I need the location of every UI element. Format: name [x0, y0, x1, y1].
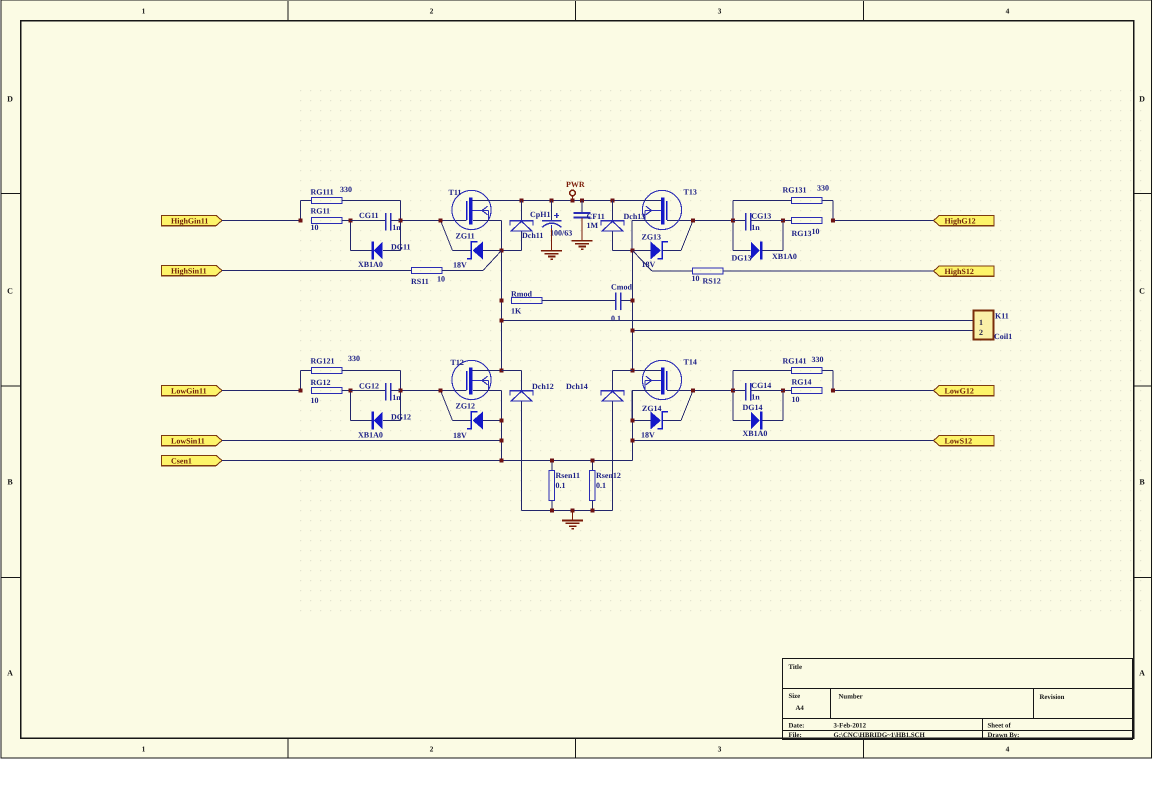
node ZG13 input node [831, 219, 835, 223]
svg-text:ZG11: ZG11 [456, 232, 475, 241]
connector K11 [974, 311, 994, 340]
resistor RS12 [652, 268, 723, 274]
svg-text:Rmod: Rmod [511, 290, 532, 299]
ground [572, 241, 593, 249]
svg-text:Rsen11: Rsen11 [556, 471, 580, 480]
node gate node [439, 219, 443, 223]
svg-text:A4: A4 [796, 705, 805, 712]
zener ZG14 [632, 412, 681, 430]
svg-text:ZG14: ZG14 [642, 404, 662, 413]
wire source of T12 [473, 390, 502, 392]
svg-text:K11: K11 [995, 312, 1009, 321]
svg-text:LowSin11: LowSin11 [171, 436, 205, 445]
svg-text:Number: Number [839, 694, 863, 701]
ground [562, 521, 583, 529]
resistor RS11 [412, 268, 484, 274]
node ZG12 input node [299, 389, 303, 393]
node Dch11 top [520, 199, 524, 203]
svg-text:4: 4 [1006, 745, 1010, 754]
capacitor CF11 [573, 201, 590, 218]
svg-text:RG141: RG141 [783, 357, 807, 366]
svg-text:330: 330 [817, 184, 829, 193]
diode Dch13 [601, 201, 633, 251]
port LowG12 [934, 385, 995, 395]
diode DG11 [351, 221, 401, 260]
svg-text:LowG12: LowG12 [945, 386, 974, 395]
zener ZG12 [453, 412, 502, 430]
svg-text:ZG13: ZG13 [642, 233, 662, 242]
node (782.5,220) [781, 219, 785, 223]
svg-text:XB1A0: XB1A0 [358, 431, 383, 440]
svg-text:T11: T11 [449, 188, 462, 197]
svg-text:File:: File: [789, 732, 802, 739]
svg-text:Coil1: Coil1 [994, 332, 1012, 341]
svg-text:2: 2 [979, 328, 983, 337]
wire CF11 to ground [581, 218, 583, 241]
svg-text:HighGin11: HighGin11 [171, 216, 208, 225]
node (350,390) [349, 389, 353, 393]
diode DG12 [351, 391, 401, 430]
wire switch node B to K11 pin 2 [633, 330, 974, 332]
wire LowG12 to gate network [833, 390, 934, 392]
svg-text:1M: 1M [587, 221, 599, 230]
svg-text:RG111: RG111 [311, 188, 334, 197]
svg-text:T13: T13 [684, 188, 697, 197]
node PWR stub [571, 199, 575, 203]
svg-text:HighSin11: HighSin11 [171, 266, 207, 275]
node K11 wire B tap [631, 329, 635, 333]
svg-text:Revision: Revision [1040, 694, 1065, 701]
wire HighSin11 to RS11 [222, 270, 412, 272]
capacitor CG11 [351, 213, 401, 231]
svg-text:G:\CNC\HBRIDG~1\HB1.SCH: G:\CNC\HBRIDG~1\HB1.SCH [834, 732, 926, 739]
diode Dch12 [502, 371, 534, 511]
svg-text:0.1: 0.1 [611, 314, 621, 323]
svg-text:RG14: RG14 [792, 378, 812, 387]
wire LowSin11 to T12 source node [222, 440, 502, 442]
wire bottom ground rail [522, 510, 613, 512]
wire switch node A to K11 pin 1 [502, 320, 974, 322]
capacitor CG13 [733, 213, 783, 231]
svg-text:C: C [1139, 287, 1145, 296]
port LowSin11 [162, 435, 223, 445]
svg-text:A: A [7, 669, 13, 678]
wire LowGin11 to gate network [222, 390, 301, 392]
svg-text:CpH1: CpH1 [530, 210, 550, 219]
svg-text:DG12: DG12 [391, 413, 411, 422]
svg-text:10: 10 [812, 227, 820, 236]
svg-text:B: B [7, 478, 13, 487]
svg-text:Rsen12: Rsen12 [596, 471, 621, 480]
node Rsen12 top [590, 459, 594, 463]
resistor Rsen12 [590, 461, 596, 511]
resistor RG13 [783, 218, 822, 224]
wire ground stub [572, 511, 574, 521]
svg-text:1: 1 [142, 7, 146, 16]
svg-text:10: 10 [311, 396, 319, 405]
node Dch13 top [611, 199, 615, 203]
svg-text:1n: 1n [392, 223, 401, 232]
svg-text:1n: 1n [751, 393, 760, 402]
wire source of T14 [632, 390, 661, 392]
capacitor CG12 [351, 383, 401, 401]
svg-text:2: 2 [430, 7, 434, 16]
svg-text:100/63: 100/63 [550, 229, 572, 238]
svg-text:DG14: DG14 [743, 403, 763, 412]
svg-text:B: B [1139, 478, 1145, 487]
svg-text:Sheet of: Sheet of [988, 723, 1012, 730]
node (782.5,390) [781, 389, 785, 393]
svg-text:RG131: RG131 [783, 186, 807, 195]
node Rmod tap [500, 299, 504, 303]
diode Dch14 [601, 371, 633, 511]
node CpH1 top [550, 199, 554, 203]
wire Csen1 sense line [222, 460, 633, 462]
svg-text:RG12: RG12 [311, 378, 331, 387]
wire diagonal gate to zener ZG12 [441, 391, 453, 421]
svg-text:D: D [7, 95, 13, 104]
wire source of T11 [473, 220, 502, 222]
node (350,220) [349, 219, 353, 223]
wire HighGin11 to gate network [222, 220, 301, 222]
node ZG14 row [631, 419, 635, 423]
svg-text:4: 4 [1006, 7, 1010, 16]
svg-text:RG121: RG121 [311, 357, 335, 366]
svg-text:Dch13: Dch13 [624, 212, 646, 221]
zener ZG13 [632, 242, 681, 260]
transistor T14 [642, 360, 681, 399]
svg-text:Date:: Date: [789, 723, 805, 730]
diode DG14 [733, 391, 783, 430]
diode DG13 [733, 221, 783, 260]
capacitor CG14 [733, 383, 783, 401]
title block [783, 659, 1133, 740]
wire T14 drain to switch node B [633, 370, 662, 372]
node (732.5,220) [731, 219, 735, 223]
svg-text:1n: 1n [392, 393, 401, 402]
node LowSin11 row [500, 439, 504, 443]
wire CpH1 to ground [551, 229, 553, 251]
resistor RG121 [301, 368, 401, 391]
resistor RG111 [301, 198, 401, 221]
svg-text:XB1A0: XB1A0 [772, 252, 797, 261]
svg-text:A: A [1139, 669, 1145, 678]
svg-text:1: 1 [979, 318, 983, 327]
node T14 drain [631, 369, 635, 373]
port Csen1 [162, 455, 223, 465]
svg-text:HighG12: HighG12 [945, 216, 976, 225]
svg-text:3: 3 [718, 7, 722, 16]
wire T14 source column [632, 391, 634, 441]
resistor Rsen11 [549, 461, 555, 511]
svg-text:330: 330 [812, 355, 824, 364]
svg-text:Title: Title [789, 664, 802, 671]
svg-text:1: 1 [142, 745, 146, 754]
svg-text:CG14: CG14 [751, 381, 771, 390]
svg-text:10: 10 [792, 395, 800, 404]
port HighSin11 [162, 265, 223, 275]
svg-text:D: D [1139, 95, 1145, 104]
ground [541, 251, 562, 259]
resistor RG141 [733, 368, 833, 391]
port HighG12 [934, 215, 995, 225]
svg-text:CG11: CG11 [359, 211, 379, 220]
svg-text:1K: 1K [511, 307, 522, 316]
svg-text:3-Feb-2012: 3-Feb-2012 [834, 723, 867, 730]
node ZG14 input node [831, 389, 835, 393]
svg-text:0.1: 0.1 [556, 481, 566, 490]
node gate node [691, 219, 695, 223]
svg-text:Cmod: Cmod [611, 283, 632, 292]
svg-text:HighS12: HighS12 [945, 267, 974, 276]
svg-text:10: 10 [692, 274, 700, 283]
svg-text:330: 330 [340, 185, 352, 194]
wire T12 source column [501, 391, 503, 461]
node Rsen12 bottom [590, 509, 594, 513]
svg-text:1n: 1n [751, 223, 760, 232]
resistor RG12 [312, 388, 351, 394]
svg-text:Dch12: Dch12 [532, 382, 554, 391]
svg-text:Drawn By:: Drawn By: [988, 732, 1020, 739]
svg-text:3: 3 [718, 745, 722, 754]
capacitor Cmod [616, 293, 633, 311]
wire source of T13 [632, 220, 661, 222]
svg-text:18V: 18V [453, 431, 467, 440]
resistor Rmod [512, 298, 616, 304]
node LowS12 row [631, 439, 635, 443]
svg-text:18V: 18V [453, 261, 467, 270]
port HighGin11 [162, 215, 223, 225]
resistor RG14 [783, 388, 822, 394]
svg-text:0.1: 0.1 [596, 481, 606, 490]
svg-text:DG13: DG13 [732, 254, 752, 263]
svg-text:Csen1: Csen1 [171, 456, 192, 465]
node Rsen11 bottom [550, 509, 554, 513]
wire T12 drain to switch node A [473, 370, 502, 372]
node Rsen11 top [550, 459, 554, 463]
svg-text:XB1A0: XB1A0 [743, 429, 768, 438]
svg-text:CF11: CF11 [587, 212, 605, 221]
capacitor CpH1 [542, 201, 562, 230]
svg-text:LowS12: LowS12 [945, 436, 973, 445]
node ZG11 input node [299, 219, 303, 223]
svg-text:RG13: RG13 [792, 229, 812, 238]
port HighS12 [934, 266, 995, 276]
transistor T11 [452, 190, 491, 229]
svg-text:Dch11: Dch11 [522, 231, 543, 240]
wire gate row ZG11 section [401, 220, 441, 222]
svg-text:T14: T14 [684, 358, 697, 367]
node switch node B [631, 249, 635, 253]
wire diagonal switch node to RS12 [633, 251, 653, 272]
svg-text:18V: 18V [641, 431, 655, 440]
svg-text:10: 10 [437, 275, 445, 284]
svg-text:10: 10 [311, 223, 319, 232]
power port PWR [570, 190, 576, 200]
svg-text:XB1A0: XB1A0 [358, 260, 383, 269]
node K11 wire A tap [500, 319, 504, 323]
wire diagonal gate to zener ZG13 [681, 221, 693, 251]
port LowGin11 [162, 385, 223, 395]
wire gate row ZG14 section [693, 390, 733, 392]
transistor T12 [452, 360, 491, 399]
svg-text:ZG12: ZG12 [456, 402, 476, 411]
node (732.5,390) [731, 389, 735, 393]
wire gate row ZG13 section [693, 220, 733, 222]
wire diagonal RS11 to switch node [483, 251, 502, 271]
svg-text:Dch14: Dch14 [566, 382, 588, 391]
wire HighS12 to RS12 [724, 270, 934, 272]
svg-text:2: 2 [430, 745, 434, 754]
svg-text:DG11: DG11 [391, 243, 411, 252]
svg-text:LowGin11: LowGin11 [171, 386, 207, 395]
svg-text:CG12: CG12 [359, 382, 379, 391]
svg-text:PWR: PWR [566, 180, 585, 189]
transistor T13 [642, 190, 681, 229]
wire T13 source column [632, 251, 634, 371]
wire gate row ZG12 section [401, 390, 441, 392]
node (400,220) [399, 219, 403, 223]
wire diagonal gate to zener ZG11 [441, 221, 453, 251]
wire LowS12 to T14 source node [633, 440, 934, 442]
svg-text:CG13: CG13 [751, 212, 771, 221]
wire PWR rail [473, 200, 662, 202]
svg-text:Size: Size [789, 693, 801, 700]
node ZG12 row [500, 419, 504, 423]
svg-text:RS12: RS12 [703, 277, 721, 286]
wire HighG12 to gate network [833, 220, 934, 222]
resistor RG11 [312, 218, 351, 224]
diode Dch11 [502, 201, 534, 251]
svg-text:C: C [7, 287, 13, 296]
wire diagonal gate to zener ZG14 [681, 391, 693, 421]
svg-text:RG11: RG11 [311, 207, 331, 216]
svg-text:330: 330 [348, 354, 360, 363]
port LowS12 [934, 435, 995, 445]
node T12 drain [500, 369, 504, 373]
node CF11 top [580, 199, 584, 203]
node gate node [439, 389, 443, 393]
node Csen row [500, 459, 504, 463]
svg-text:RS11: RS11 [411, 277, 429, 286]
node switch node A [500, 249, 504, 253]
node gate node [691, 389, 695, 393]
zener ZG11 [453, 242, 502, 260]
svg-text:T12: T12 [451, 358, 464, 367]
node ground stub [571, 509, 575, 513]
node Cmod tap [631, 299, 635, 303]
resistor RG131 [733, 198, 833, 221]
wire high-side switch node column (T11 source) [501, 251, 503, 371]
node (400,390) [399, 389, 403, 393]
